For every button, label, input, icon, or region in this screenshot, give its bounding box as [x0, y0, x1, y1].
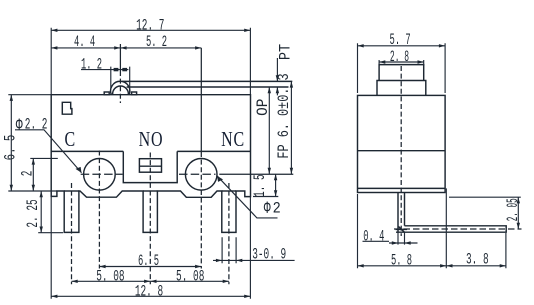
- dim 2.8 line: [379, 60, 424, 66]
- arrows 0.4: [392, 241, 398, 244]
- arrows 2.05: [517, 197, 520, 203]
- svg-text:NO: NO: [139, 128, 164, 152]
- svg-text:2: 2: [273, 201, 281, 218]
- svg-text:4. 4: 4. 4: [74, 32, 95, 51]
- centerline hole C vertical: [98, 151, 100, 269]
- svg-text:1. 2: 1. 2: [81, 55, 102, 74]
- arrows 5.7: [358, 44, 364, 47]
- arrows 2: [32, 158, 35, 164]
- dim 2.25 line: [38, 191, 63, 233]
- front view: small molded mark top-left: [62, 102, 72, 114]
- centerline hole C horizontal: [81, 173, 123, 175]
- side view: vertical centerline: [400, 66, 402, 236]
- svg-text:5. 08: 5. 08: [176, 267, 204, 285]
- svg-text:2. 05: 2. 05: [504, 198, 522, 221]
- side view: mid split line: [358, 150, 446, 152]
- front view: NO contact window: [139, 159, 161, 173]
- dim 4.4 / 5.2 line: [51, 47, 201, 49]
- side view: vertical terminal strip: [398, 193, 405, 233]
- svg-text:5. 8: 5. 8: [391, 251, 412, 270]
- svg-text:C: C: [64, 128, 75, 152]
- arrow leader phi2.2: [75, 166, 82, 173]
- svg-text:FP 6. 0±0. 3: FP 6. 0±0. 3: [275, 73, 293, 158]
- dim 5.7 line: [358, 43, 446, 93]
- svg-text:3-0. 9: 3-0. 9: [252, 245, 286, 263]
- base line across terminal NO top: [143, 190, 157, 192]
- svg-text:6. 5: 6. 5: [3, 135, 21, 161]
- side view: collar block: [377, 81, 426, 96]
- svg-text:1. 5: 1. 5: [251, 174, 269, 197]
- centerline terminal NO: [149, 153, 151, 285]
- svg-text:5. 08: 5. 08: [96, 267, 124, 285]
- extension line holes centerline right: [219, 173, 293, 175]
- arrows PT: [276, 75, 279, 81]
- arrows 5.08 left: [72, 280, 78, 283]
- dim 6.5 left line: [8, 95, 57, 191]
- centerline terminal NC: [228, 183, 230, 284]
- dim 1.5 line: [253, 174, 278, 197]
- dim 12.7 line: [51, 28, 250, 94]
- arrows FP: [290, 81, 293, 87]
- dim 2 line: [30, 158, 58, 191]
- plunger inner arc: [113, 86, 129, 95]
- arrows 3.8: [446, 264, 452, 267]
- svg-text:2. 2: 2. 2: [25, 115, 48, 133]
- front view: hole C (circle left): [84, 159, 116, 191]
- arrows 2.8: [379, 60, 385, 63]
- arrows 5.08 right: [150, 280, 156, 283]
- svg-text:2: 2: [18, 171, 36, 177]
- svg-text:Φ: Φ: [264, 198, 271, 219]
- front view: hole NC (circle right): [185, 159, 217, 191]
- plunger outer arc: [111, 81, 130, 94]
- svg-text:Φ: Φ: [16, 115, 23, 136]
- side view: body: [358, 95, 446, 192]
- arrow squares 1.2: [114, 68, 119, 71]
- arrows 5.8: [358, 264, 364, 267]
- arrows 5.2: [120, 46, 126, 49]
- leader phi2.2: [15, 130, 82, 173]
- svg-text:PT: PT: [278, 44, 295, 60]
- dim 12.8 line: [51, 191, 250, 299]
- front view: middle recess: [123, 151, 177, 182]
- arrows 12.7: [51, 29, 57, 32]
- svg-text:NC: NC: [221, 128, 245, 152]
- svg-text:2. 25: 2. 25: [24, 199, 42, 227]
- arrows 1.5: [274, 174, 277, 180]
- dim OP line: [268, 87, 270, 174]
- front view: body outline: [51, 95, 250, 233]
- dim 1.2 line: [81, 67, 130, 93]
- leader phi2: [217, 176, 278, 218]
- dim 3-0.9 line: [213, 237, 295, 263]
- svg-text:5. 2: 5. 2: [146, 32, 167, 51]
- svg-text:OP: OP: [254, 99, 273, 116]
- arrows 4.4: [51, 46, 57, 49]
- dim 6.5 bottom line: [99, 266, 201, 268]
- dim FP line: [290, 81, 292, 174]
- arrows OP: [268, 87, 271, 93]
- svg-text:0. 4: 0. 4: [363, 227, 384, 246]
- plunger top boss right square: [132, 92, 137, 95]
- side view: bend cross mark: [396, 227, 408, 233]
- dim 5.8 / 3.8 line: [358, 188, 506, 268]
- centerline plunger vertical: [119, 44, 121, 71]
- arrows 12.8: [51, 295, 57, 298]
- dim 0.4 line: [363, 232, 418, 244]
- svg-text:6. 5: 6. 5: [138, 251, 159, 270]
- lever line free position: [122, 80, 292, 82]
- svg-text:2. 8: 2. 8: [390, 47, 409, 66]
- side view: horizontal terminal strip: [396, 226, 506, 232]
- side view: horizontal strip centerline: [394, 228, 522, 230]
- front view: internal shoulder line left: [51, 150, 123, 152]
- dim PT line: [276, 58, 278, 95]
- centerline hole NC vertical (extension from 5.2 dim): [200, 48, 202, 152]
- dim 2.05 line: [449, 197, 521, 229]
- arrows 3-0.9: [216, 259, 222, 262]
- centerline hole NC horizontal: [179, 173, 216, 175]
- front view: internal shoulder line right: [177, 150, 250, 152]
- svg-text:3. 8: 3. 8: [466, 250, 489, 268]
- side view: plunger block: [379, 65, 424, 81]
- arrows 2.25: [40, 191, 43, 197]
- arrows 6.5 left: [10, 95, 13, 101]
- dim 5.08 lines: [72, 280, 229, 282]
- plunger top boss left square: [104, 92, 109, 95]
- svg-text:12. 8: 12. 8: [135, 282, 163, 300]
- side view: base line: [358, 187, 446, 189]
- base line across terminal NC top: [222, 190, 236, 192]
- lever line pressed position: [127, 86, 289, 88]
- centerline terminal C: [71, 183, 73, 284]
- base line across terminal C top: [64, 190, 79, 192]
- arrows 6.5 bottom: [99, 265, 105, 268]
- arrow leader phi2: [216, 176, 223, 183]
